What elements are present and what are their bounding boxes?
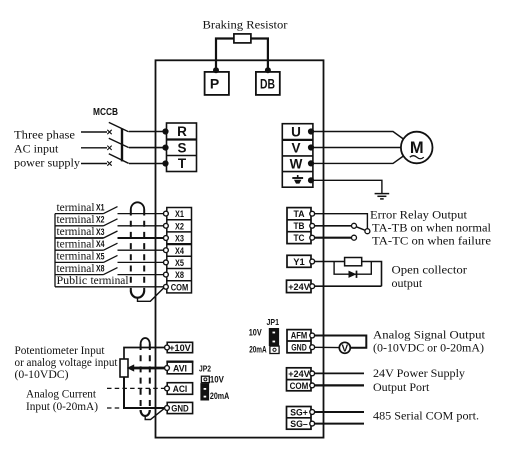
terminal circle X2 bbox=[164, 223, 169, 228]
terminal Y1 bbox=[287, 255, 311, 267]
wire X4 bbox=[55, 249, 104, 251]
svg-text:(0-10VDC or 0-20mA): (0-10VDC or 0-20mA) bbox=[373, 341, 484, 355]
svg-text:TB: TB bbox=[294, 221, 305, 231]
breaker blade L2 bbox=[109, 138, 129, 147]
potentiometer body bbox=[120, 359, 128, 377]
terminal +10V bbox=[167, 342, 192, 352]
wire TC to contact bbox=[315, 237, 352, 239]
svg-text:GND: GND bbox=[291, 342, 307, 352]
terminal circle COM bbox=[164, 284, 169, 289]
svg-text:V: V bbox=[291, 141, 300, 156]
svg-text:MCCB: MCCB bbox=[93, 107, 118, 118]
wire ground terminal to earth bbox=[311, 180, 382, 193]
junction dot ground bbox=[308, 177, 314, 183]
svg-text:+24V: +24V bbox=[288, 369, 310, 379]
svg-text:COM: COM bbox=[290, 381, 309, 391]
wire X1 bbox=[55, 213, 104, 215]
svg-text:ACI: ACI bbox=[173, 384, 188, 394]
svg-text:TC: TC bbox=[294, 233, 305, 243]
wire to terminal R bbox=[129, 131, 166, 133]
ground glyph in terminal cell bbox=[297, 175, 299, 178]
junction dot S bbox=[162, 145, 168, 151]
junction dot T bbox=[162, 160, 168, 166]
wire phase L2 input bbox=[81, 147, 107, 149]
svg-text:DB: DB bbox=[260, 76, 275, 92]
terminal circle X4 bbox=[164, 248, 169, 253]
svg-text:(0-10VDC): (0-10VDC) bbox=[15, 367, 69, 381]
terminal block +24V COM bbox=[287, 368, 312, 391]
terminal ACI bbox=[167, 383, 192, 395]
wire GND to voltmeter bbox=[315, 346, 340, 348]
svg-text:TA-TC on when failure: TA-TC on when failure bbox=[372, 234, 491, 248]
shield drain wire to GND bbox=[145, 409, 164, 420]
svg-text:T: T bbox=[178, 156, 187, 171]
diode bbox=[349, 271, 357, 278]
X terminal block bbox=[167, 208, 192, 293]
svg-text:JP2: JP2 bbox=[199, 365, 211, 374]
svg-text:V: V bbox=[341, 344, 348, 355]
motor M bbox=[401, 132, 433, 164]
svg-text:X8: X8 bbox=[175, 270, 184, 281]
junction dot V bbox=[308, 144, 314, 150]
svg-text:GND: GND bbox=[171, 403, 189, 413]
terminal circle X3 bbox=[164, 236, 169, 241]
svg-text:485 Serial COM port.: 485 Serial COM port. bbox=[373, 409, 479, 423]
svg-text:COM: COM bbox=[171, 282, 189, 293]
svg-text:24V Power Supply: 24V Power Supply bbox=[373, 366, 465, 380]
wire X2 bbox=[55, 225, 104, 227]
svg-text:SG+: SG+ bbox=[290, 407, 308, 417]
svg-text:S: S bbox=[177, 140, 186, 155]
svg-text:X5: X5 bbox=[175, 258, 185, 269]
X terminal label table bbox=[54, 214, 56, 287]
svg-text:TA: TA bbox=[294, 209, 305, 219]
earth ground symbol bbox=[375, 193, 390, 195]
svg-text:M: M bbox=[410, 139, 424, 157]
terminal circle X1 bbox=[164, 211, 169, 216]
wire braking resistor to DB bbox=[251, 39, 268, 72]
svg-text:Input (0-20mA): Input (0-20mA) bbox=[26, 399, 98, 413]
svg-text:20mA: 20mA bbox=[249, 344, 267, 354]
svg-text:+10V: +10V bbox=[169, 343, 191, 353]
svg-text:output: output bbox=[392, 276, 423, 290]
shielded cable capsule (digital inputs) bbox=[131, 202, 144, 209]
terminal GND (analog) bbox=[167, 402, 192, 413]
svg-text:Y1: Y1 bbox=[293, 257, 305, 267]
terminal P bbox=[205, 72, 229, 95]
svg-text:X1: X1 bbox=[96, 203, 105, 214]
wire P to braking resistor bbox=[216, 39, 234, 72]
wire SG- bbox=[315, 423, 364, 425]
flyback diode branch bbox=[334, 262, 371, 275]
wire Y1 to coil bbox=[315, 261, 345, 263]
svg-text:X5: X5 bbox=[96, 251, 105, 262]
shielded cable capsule (analog) bbox=[141, 338, 150, 344]
wire AFM loop to voltmeter bbox=[315, 336, 367, 348]
terminal circle X5 bbox=[164, 260, 169, 265]
wire W to motor bbox=[311, 156, 403, 163]
svg-text:X2: X2 bbox=[175, 221, 184, 232]
svg-text:+24V: +24V bbox=[288, 282, 310, 292]
svg-text:Braking Resistor: Braking Resistor bbox=[203, 18, 288, 32]
wiper arrowhead bbox=[127, 364, 134, 371]
wire +24V supply bbox=[315, 372, 364, 374]
terminal DB bbox=[256, 72, 280, 95]
svg-text:TA-TB on when normal: TA-TB on when normal bbox=[372, 221, 492, 235]
svg-text:Three phase: Three phase bbox=[14, 128, 75, 142]
wire COM / public terminal bbox=[55, 286, 164, 288]
terminal block U V W ground bbox=[282, 124, 313, 188]
svg-text:10V: 10V bbox=[249, 327, 262, 337]
relay pole contact bbox=[365, 229, 370, 234]
svg-text:AVI: AVI bbox=[173, 363, 187, 373]
braking resistor body bbox=[234, 34, 251, 43]
breaker contact x L3 bbox=[107, 161, 111, 165]
svg-text:U: U bbox=[291, 125, 301, 140]
junction dot at P bbox=[213, 67, 219, 73]
wire TA to relay pole bbox=[315, 214, 368, 229]
terminal block SG+ SG- bbox=[287, 407, 312, 430]
shield drain wire to COM bbox=[138, 288, 164, 302]
wire X5 bbox=[55, 261, 104, 263]
svg-text:JP1: JP1 bbox=[267, 318, 280, 327]
wire U to motor bbox=[311, 132, 403, 140]
wire X3 bbox=[55, 237, 104, 239]
wire phase L3 input bbox=[81, 163, 107, 165]
voltmeter V bbox=[339, 342, 350, 353]
wire V to motor bbox=[311, 147, 401, 149]
wire phase L1 input bbox=[81, 131, 107, 133]
terminal block TA TB TC bbox=[287, 208, 311, 244]
wire SG+ bbox=[315, 411, 364, 413]
svg-text:X3: X3 bbox=[175, 234, 184, 245]
relay armature TB-TA bbox=[356, 227, 365, 231]
wire to terminal S bbox=[129, 147, 166, 149]
breaker contact x L1 bbox=[107, 130, 111, 134]
wire coil to +24V drop bbox=[362, 262, 382, 287]
svg-text:AFM: AFM bbox=[291, 331, 308, 341]
terminal block R S T bbox=[167, 123, 197, 172]
svg-text:Output Port: Output Port bbox=[373, 380, 430, 394]
wire AVI (wiper) bbox=[131, 367, 165, 370]
svg-text:R: R bbox=[177, 124, 187, 139]
svg-text:X4: X4 bbox=[175, 246, 185, 257]
junction dot U bbox=[308, 128, 314, 134]
wire +24V bbox=[315, 285, 382, 287]
svg-text:SG–: SG– bbox=[290, 419, 308, 429]
wire COM supply bbox=[315, 384, 364, 386]
wire to terminal T bbox=[129, 163, 166, 165]
wire +10V to potentiometer bbox=[124, 348, 165, 360]
junction dot W bbox=[308, 160, 314, 166]
breaker trip bar bbox=[121, 128, 123, 161]
wire ACI dashed bbox=[107, 387, 164, 389]
breaker contact x L2 bbox=[107, 146, 111, 150]
wire TB to contact bbox=[315, 225, 352, 227]
svg-text:Error Relay Output: Error Relay Output bbox=[370, 208, 468, 222]
svg-text:P: P bbox=[210, 76, 219, 92]
svg-text:X4: X4 bbox=[96, 239, 105, 250]
wire GND dashed stub bbox=[107, 407, 121, 409]
terminal circle X8 bbox=[164, 272, 169, 277]
svg-text:10V: 10V bbox=[210, 374, 224, 384]
svg-text:X2: X2 bbox=[96, 215, 105, 226]
terminal +24V (upper) bbox=[287, 280, 312, 292]
svg-text:AC input: AC input bbox=[14, 142, 59, 156]
main enclosure box bbox=[156, 60, 324, 437]
terminal AVI bbox=[167, 362, 192, 374]
svg-text:20mA: 20mA bbox=[210, 391, 230, 401]
breaker blade L3 bbox=[109, 154, 129, 164]
terminal block AFM GND bbox=[287, 330, 311, 353]
potentiometer lower leg to GND bbox=[124, 377, 165, 408]
svg-text:Analog Signal Output: Analog Signal Output bbox=[373, 328, 486, 342]
svg-text:X1: X1 bbox=[175, 209, 185, 220]
junction dot R bbox=[162, 128, 168, 134]
svg-text:power supply: power supply bbox=[14, 156, 80, 170]
relay coil bbox=[345, 258, 362, 266]
svg-text:X3: X3 bbox=[96, 227, 105, 238]
breaker blade L1 bbox=[109, 122, 129, 131]
svg-text:Open collector: Open collector bbox=[392, 263, 468, 277]
junction dot at DB bbox=[265, 67, 271, 73]
wire X8 bbox=[55, 274, 104, 276]
svg-text:W: W bbox=[290, 156, 303, 171]
